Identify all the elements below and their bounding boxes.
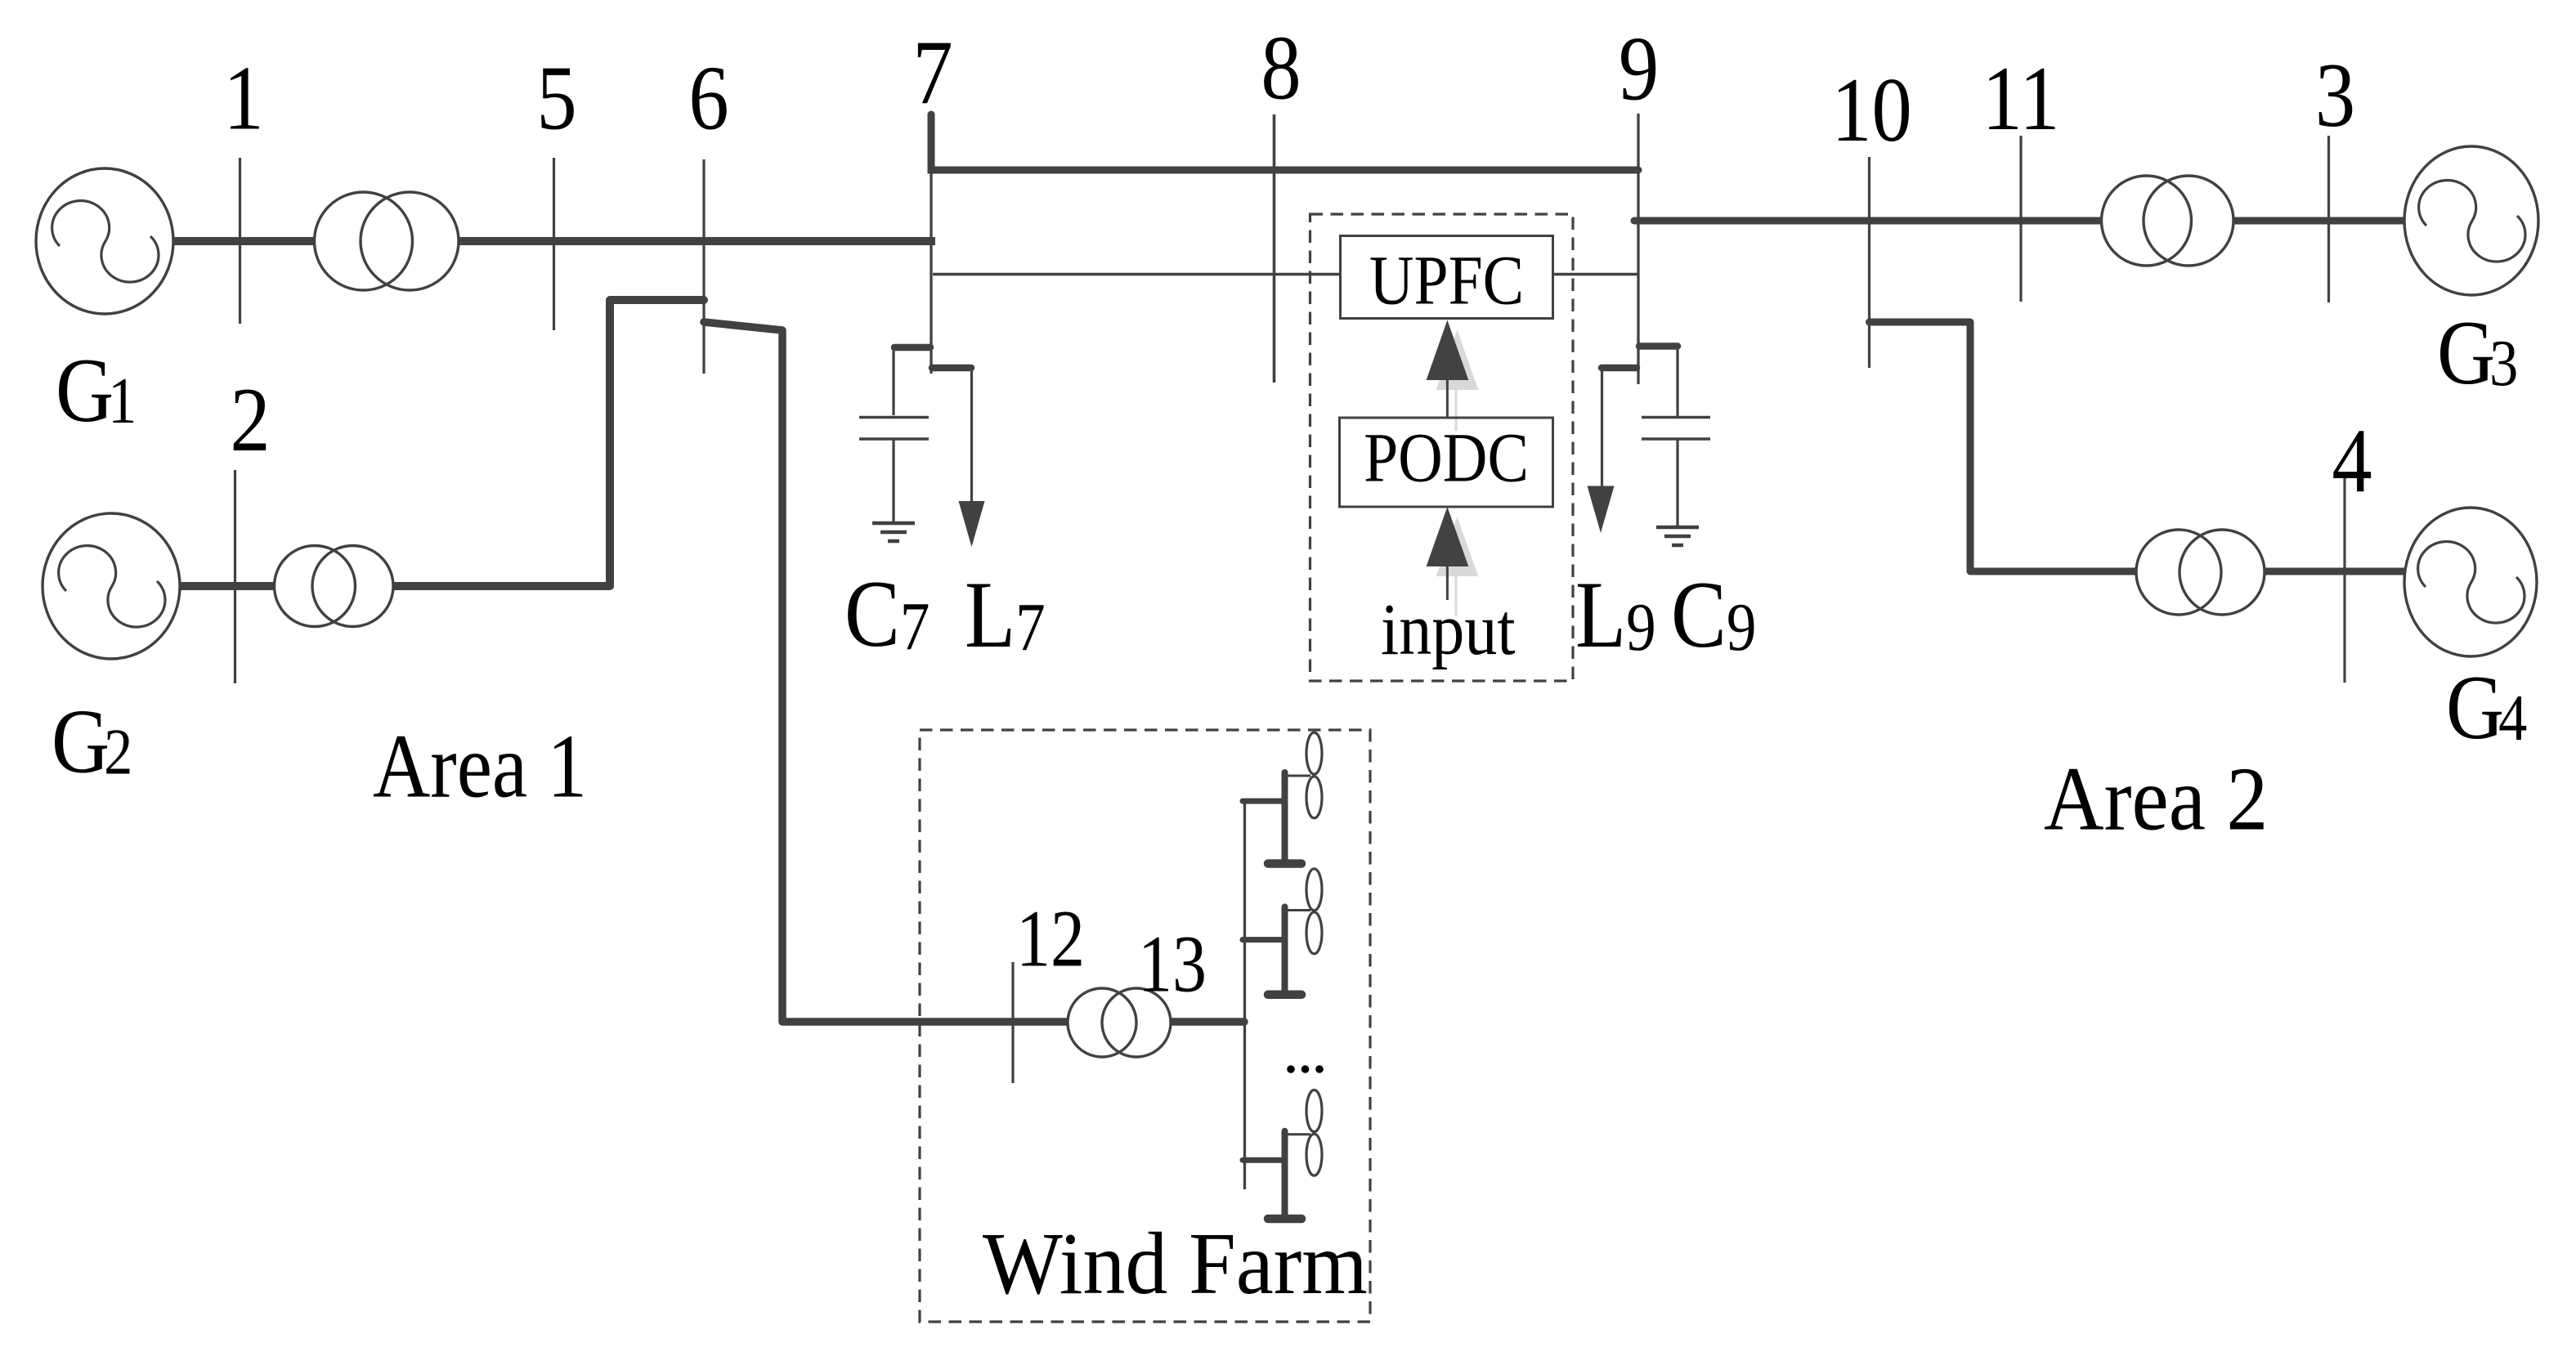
svg-text:Area 2: Area 2 bbox=[2044, 750, 2268, 850]
svg-text:UPFC: UPFC bbox=[1369, 241, 1524, 320]
svg-text:C9: C9 bbox=[1671, 561, 1756, 667]
svg-text:G2: G2 bbox=[52, 691, 132, 792]
svg-text:1: 1 bbox=[223, 47, 263, 149]
svg-text:C7: C7 bbox=[844, 560, 930, 666]
svg-text:input: input bbox=[1381, 589, 1516, 670]
svg-text:G1: G1 bbox=[56, 339, 137, 441]
svg-text:L9: L9 bbox=[1575, 561, 1656, 667]
svg-text:8: 8 bbox=[1261, 17, 1301, 119]
svg-text:10: 10 bbox=[1831, 59, 1912, 160]
svg-text:6: 6 bbox=[688, 47, 728, 149]
svg-text:11: 11 bbox=[1982, 47, 2060, 149]
svg-text:L7: L7 bbox=[965, 561, 1046, 667]
svg-text:9: 9 bbox=[1619, 18, 1659, 119]
svg-text:PODC: PODC bbox=[1364, 419, 1529, 497]
svg-text:5: 5 bbox=[536, 47, 576, 149]
svg-text:13: 13 bbox=[1138, 919, 1207, 1009]
svg-text:G3: G3 bbox=[2437, 302, 2518, 403]
svg-text:Wind Farm: Wind Farm bbox=[983, 1215, 1368, 1312]
svg-text:3: 3 bbox=[2315, 44, 2355, 145]
svg-text:G4: G4 bbox=[2446, 656, 2527, 758]
svg-text:7: 7 bbox=[912, 21, 952, 123]
svg-text:12: 12 bbox=[1016, 893, 1085, 983]
svg-text:Area 1: Area 1 bbox=[373, 716, 587, 817]
svg-text:4: 4 bbox=[2332, 410, 2372, 511]
svg-text:2: 2 bbox=[230, 369, 270, 470]
